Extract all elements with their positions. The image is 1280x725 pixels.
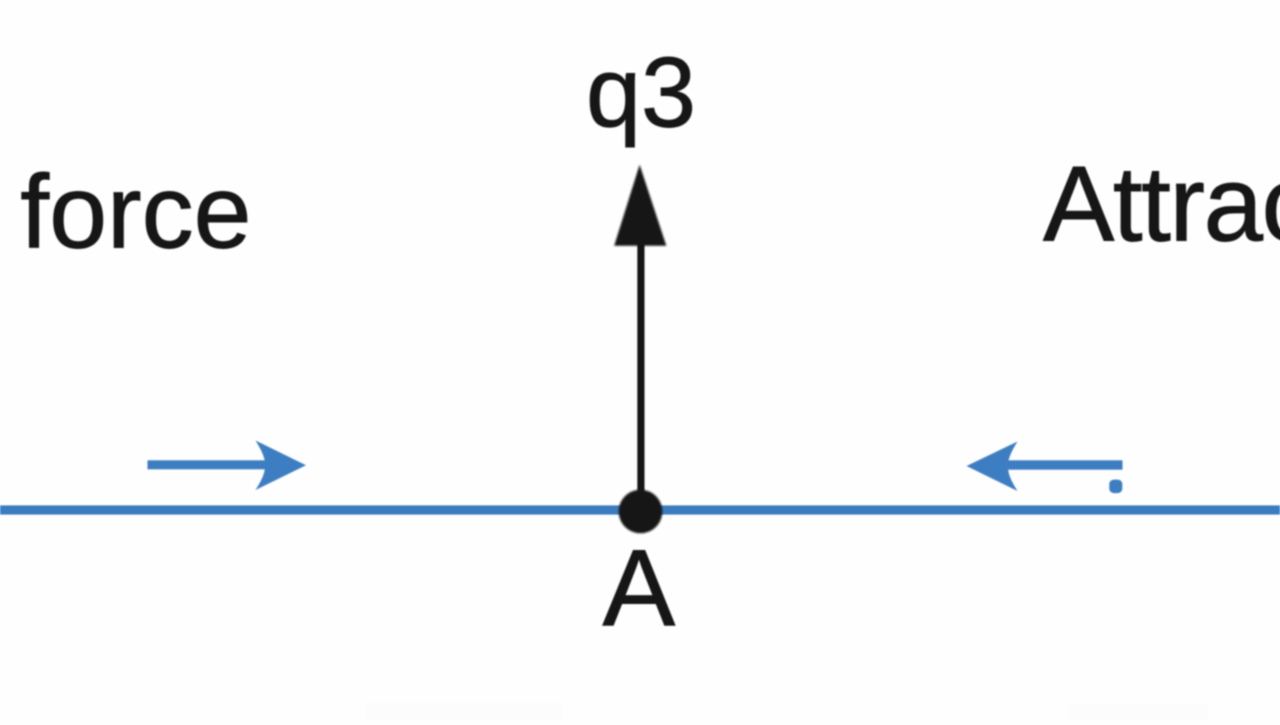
svg-text:Attraction: Attraction	[1043, 144, 1280, 264]
node A: black charge dot	[619, 490, 663, 534]
wire: blue horizontal line through point A	[0, 505, 1280, 514]
svg-text:q3: q3	[586, 37, 696, 148]
svg-text:A: A	[603, 528, 676, 650]
blue arrow pointing right (left side): barbed head	[256, 441, 307, 491]
faint smudge bottom right	[1068, 704, 1208, 720]
faint smudge bottom center	[366, 703, 562, 720]
blue arrow pointing left (right side): barbed head	[967, 442, 1018, 492]
force vector F on q3: black arrow shaft	[637, 242, 644, 492]
small blue dot under arrow tail	[1109, 480, 1122, 494]
force vector F on q3: black arrowhead	[614, 165, 666, 246]
blue arrow pointing left (right side): shaft	[1004, 460, 1123, 469]
blue arrow pointing right (left side): shaft	[148, 460, 271, 469]
svg-text:force: force	[20, 155, 251, 271]
